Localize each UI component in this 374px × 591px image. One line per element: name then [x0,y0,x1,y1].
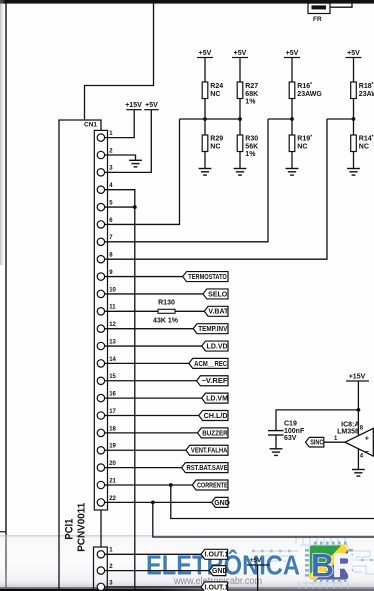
net flag TERMOSTATO [183,272,228,282]
svg-text:23AWG: 23AWG [297,91,322,98]
resistor R18 [351,82,374,99]
CN1 pin 12 [97,322,116,332]
wire op-amp pin4 to ground [357,449,359,470]
svg-text:43K 1%: 43K 1% [153,318,179,325]
junction GND tap [151,500,155,504]
wire +15V to op-amp pin8 [357,381,359,436]
junction R18 node [352,117,356,121]
CN1 pin 16 [97,392,116,402]
+5V supply pointing down [247,557,269,591]
wire R18 to node [353,99,355,120]
wire pin4 long vertical bus [105,190,135,591]
wire pin13 [105,345,202,347]
CN1 pin 11 [97,305,116,315]
svg-text:16: 16 [109,392,116,398]
wire +5V to R16 [291,58,293,83]
junction pin5 [133,205,137,209]
svg-text:+: + [365,434,370,443]
svg-text:SINC: SINC [310,440,323,447]
wire node to R19 [291,119,293,135]
svg-text:I.OUT.1: I.OUT.1 [205,552,229,559]
resistor R27 [237,82,258,106]
resistor R29 [202,135,223,152]
svg-text:R16*: R16* [297,82,312,90]
wire lower pin2 [105,570,210,572]
wire pin6 to R24-R29 node [105,119,180,224]
wire pin20 [105,467,182,469]
net flag VENT.FALHA [186,445,228,455]
svg-text:CH.L/D: CH.L/D [204,413,228,420]
svg-text:I.OUT.1: I.OUT.1 [205,584,229,591]
ground below R29 [199,169,212,176]
svg-text:+15V: +15V [349,374,366,381]
net flag -V.REF [197,376,229,386]
+15V supply at CN1 [125,102,142,110]
resistor R19 [289,135,312,152]
net flag I.OUT.1 lower [201,582,228,591]
svg-text:−V.REF: −V.REF [202,378,229,385]
svg-text:+5V: +5V [145,102,158,109]
svg-text:NC: NC [297,144,307,151]
wire pin8 to R18-R14 node [105,119,327,259]
wire pin5 [105,206,135,208]
wire node R18 row [327,118,354,120]
ground at pin2 [129,160,142,167]
svg-text:+5V: +5V [199,50,212,57]
wire pin15 [105,380,197,382]
svg-text:BUZZER: BUZZER [202,430,228,437]
resistor R24 [202,82,223,99]
CN1 pin 19 [97,444,116,454]
svg-text:18: 18 [109,426,116,432]
svg-text:CN1: CN1 [84,122,97,129]
svg-text:21: 21 [109,478,116,484]
resistor R16 [289,82,322,99]
net flag GND [212,497,230,507]
junction R27 node [238,117,242,121]
svg-text:LD.VD: LD.VD [207,343,228,350]
net flag CH.L/D [199,411,228,421]
CN1 pin strip 1 [94,130,107,510]
wire from top rail to CN1 [85,4,154,121]
svg-text:BR: BR [311,548,356,584]
svg-text:12: 12 [109,322,116,328]
net flag LD.VM [202,393,228,403]
junction op-amp supply [357,408,361,412]
svg-text:R14*: R14* [359,135,374,143]
+5V supply above R27 [232,50,248,58]
net flag SINC [306,437,324,447]
svg-text:13: 13 [109,339,116,345]
wire pin1 to +15V [105,110,135,138]
svg-text:FR: FR [313,16,322,23]
wire node R24-R30 row [180,118,241,120]
wire node to R14 [353,119,355,135]
wire R24 to node [204,99,206,120]
CN1 pin 5 [97,200,113,210]
CN1 pin strip 2 [94,547,108,591]
wire R29 to ground [204,152,206,169]
ground below R14 [347,169,360,176]
svg-text:56K: 56K [245,144,258,151]
CN1 pin 13 [97,339,116,349]
CN1 lower pin 1 [97,548,113,558]
CN1 pin 15 [97,374,116,384]
svg-text:GND: GND [214,500,230,507]
junction R16 node [290,117,294,121]
svg-text:14: 14 [109,357,116,363]
CN1 lower pin 3 [97,580,113,590]
net flag GND lower [209,566,227,576]
wire pin3 to +5V [105,110,152,173]
CN1 pin 14 [97,357,116,367]
CN1 lower pin 2 [97,564,113,574]
CN1 pin 4 [97,183,113,193]
wire pin7 to R16-R19 node [105,119,268,242]
svg-text:LD.VM: LD.VM [206,396,228,403]
svg-text:+5V: +5V [250,557,262,564]
svg-text:C19: C19 [284,421,297,428]
wire pin18 [105,432,198,434]
junction CORRENTE tap [169,483,173,487]
wire pin2 to ground [105,155,136,160]
svg-text:17: 17 [109,409,116,415]
CN1 pin 6 [97,218,113,228]
wire node to R29 [204,119,206,135]
CN1 pin 9 [97,270,113,280]
net flag RST.BAT.SAVE [182,463,228,473]
svg-text:22: 22 [109,496,116,502]
net flag CORRENTE [192,480,228,490]
wire pin22 [105,501,212,503]
svg-text:R27: R27 [245,83,258,90]
svg-text:+5V: +5V [286,50,299,57]
CN1 pin 3 [97,166,113,176]
svg-text:ACM__REC: ACM__REC [194,361,227,368]
svg-text:R24: R24 [210,83,223,90]
+5V supply above R16 [284,50,300,58]
wire node R16 row [268,118,292,120]
CN1 pin 7 [97,235,113,245]
ground below R19 [286,169,299,176]
wire FR to top rail [330,4,352,8]
svg-text:R29: R29 [210,136,223,143]
ground below R30 [234,169,247,176]
svg-text:R30: R30 [245,136,258,143]
junction R24 node [203,117,207,121]
wire +5V to R18 [353,58,355,83]
svg-text:TERMOSTATO: TERMOSTATO [188,274,227,281]
wire +5V to R24 [204,58,206,83]
wire pin14 [105,362,189,364]
wire R16 to node [291,99,293,120]
+5V supply above R24 [197,50,213,58]
wire lower pin3 [105,586,201,588]
CN1 pin 18 [97,426,116,436]
svg-text:+5V: +5V [347,50,360,57]
svg-text:23AWG: 23AWG [359,91,374,98]
CN1 pin 10 [97,287,116,297]
wire pin17 [105,415,199,417]
svg-text:R19*: R19* [297,135,312,143]
resistor R14 [351,135,374,152]
wire pin12 [105,328,194,330]
wire pin16 [105,397,202,399]
wire pin19 [105,449,186,451]
wire R30 to ground [239,152,241,169]
svg-text:1%: 1% [245,99,256,106]
svg-text:PCI1: PCI1 [64,519,76,540]
wire GND tap to right [153,502,374,537]
svg-text:NC: NC [210,144,220,151]
+5V supply at CN1 [144,102,159,110]
net flag ACM__REC [189,358,228,368]
net flag LD.VD [202,341,228,351]
net flag I.OUT.1 [201,549,228,559]
svg-text:20: 20 [109,461,116,467]
ground op-amp [352,470,365,477]
wire between pin strips [100,510,102,547]
CN1 pin 17 [97,409,116,419]
svg-text:15: 15 [109,374,116,380]
svg-text:PCNV0011: PCNV0011 [76,503,88,552]
op-amp IC8:A [337,421,373,456]
connector CN1 outer box [59,120,101,591]
svg-text:V.BAT: V.BAT [208,309,229,316]
CN1 pin 8 [97,253,113,263]
wire lower pin1 [105,553,201,555]
svg-text:NC: NC [210,91,220,98]
svg-text:11: 11 [109,305,116,311]
svg-text:100nF: 100nF [284,428,305,435]
wire pin11 to R130 [105,310,158,312]
ground below C19 [270,449,283,456]
wire CORRENTE tap to right [171,485,374,519]
capacitor C19 [268,421,305,442]
svg-text:RST.BAT.SAVE: RST.BAT.SAVE [187,465,228,472]
svg-text:VENT.FALHA: VENT.FALHA [191,448,228,455]
wire supply to C19 [276,410,358,430]
wire C19 to ground [275,435,277,449]
wire pin9 [105,276,183,278]
wire R14 to ground [353,152,355,169]
svg-text:R18*: R18* [359,82,374,90]
resistor R30 [237,135,258,158]
+5V supply above R18 [346,50,362,58]
svg-text:IC8:A: IC8:A [341,421,359,428]
wire R130 to V.BAT [175,310,204,312]
net flag BUZZER [198,428,229,438]
CN1 pin 2 [97,148,113,158]
wire pin10 [105,293,203,295]
svg-text:R130: R130 [158,299,175,306]
CN1 pin 20 [97,461,116,471]
watermark logo ELETRONICABR [0,535,374,589]
fuse FR [308,3,330,23]
CN1 pin 21 [97,478,116,488]
CN1 pin 1 [97,131,113,141]
svg-text:68K: 68K [245,91,258,98]
svg-text:+15V: +15V [125,102,142,109]
svg-text:GND: GND [212,568,228,575]
svg-text:1%: 1% [245,151,256,158]
resistor R130 [153,299,179,324]
CN1 pin 22 [97,496,116,506]
wire SINC to op-amp pin1 [324,441,345,443]
svg-text:LM358: LM358 [337,429,359,436]
wire R27 to node [239,99,241,120]
svg-text:NC: NC [359,144,369,151]
net flag V.BAT [204,306,229,316]
+15V supply op-amp [346,374,369,382]
svg-text:63V: 63V [284,435,297,442]
svg-text:19: 19 [109,444,116,450]
wire node to R30 [239,119,241,135]
svg-text:CORRENTE: CORRENTE [197,482,228,489]
net flag SELO [203,289,228,299]
svg-text:−: − [365,447,370,456]
svg-text:10: 10 [109,287,116,293]
wire R19 to ground [291,152,293,169]
svg-text:TEMP.INV: TEMP.INV [198,326,227,333]
wire pin21 [105,484,193,486]
svg-text:SELO: SELO [208,291,228,298]
net flag TEMP.INV [193,324,228,334]
svg-text:+5V: +5V [234,50,247,57]
wire +5V to R27 [239,58,241,83]
